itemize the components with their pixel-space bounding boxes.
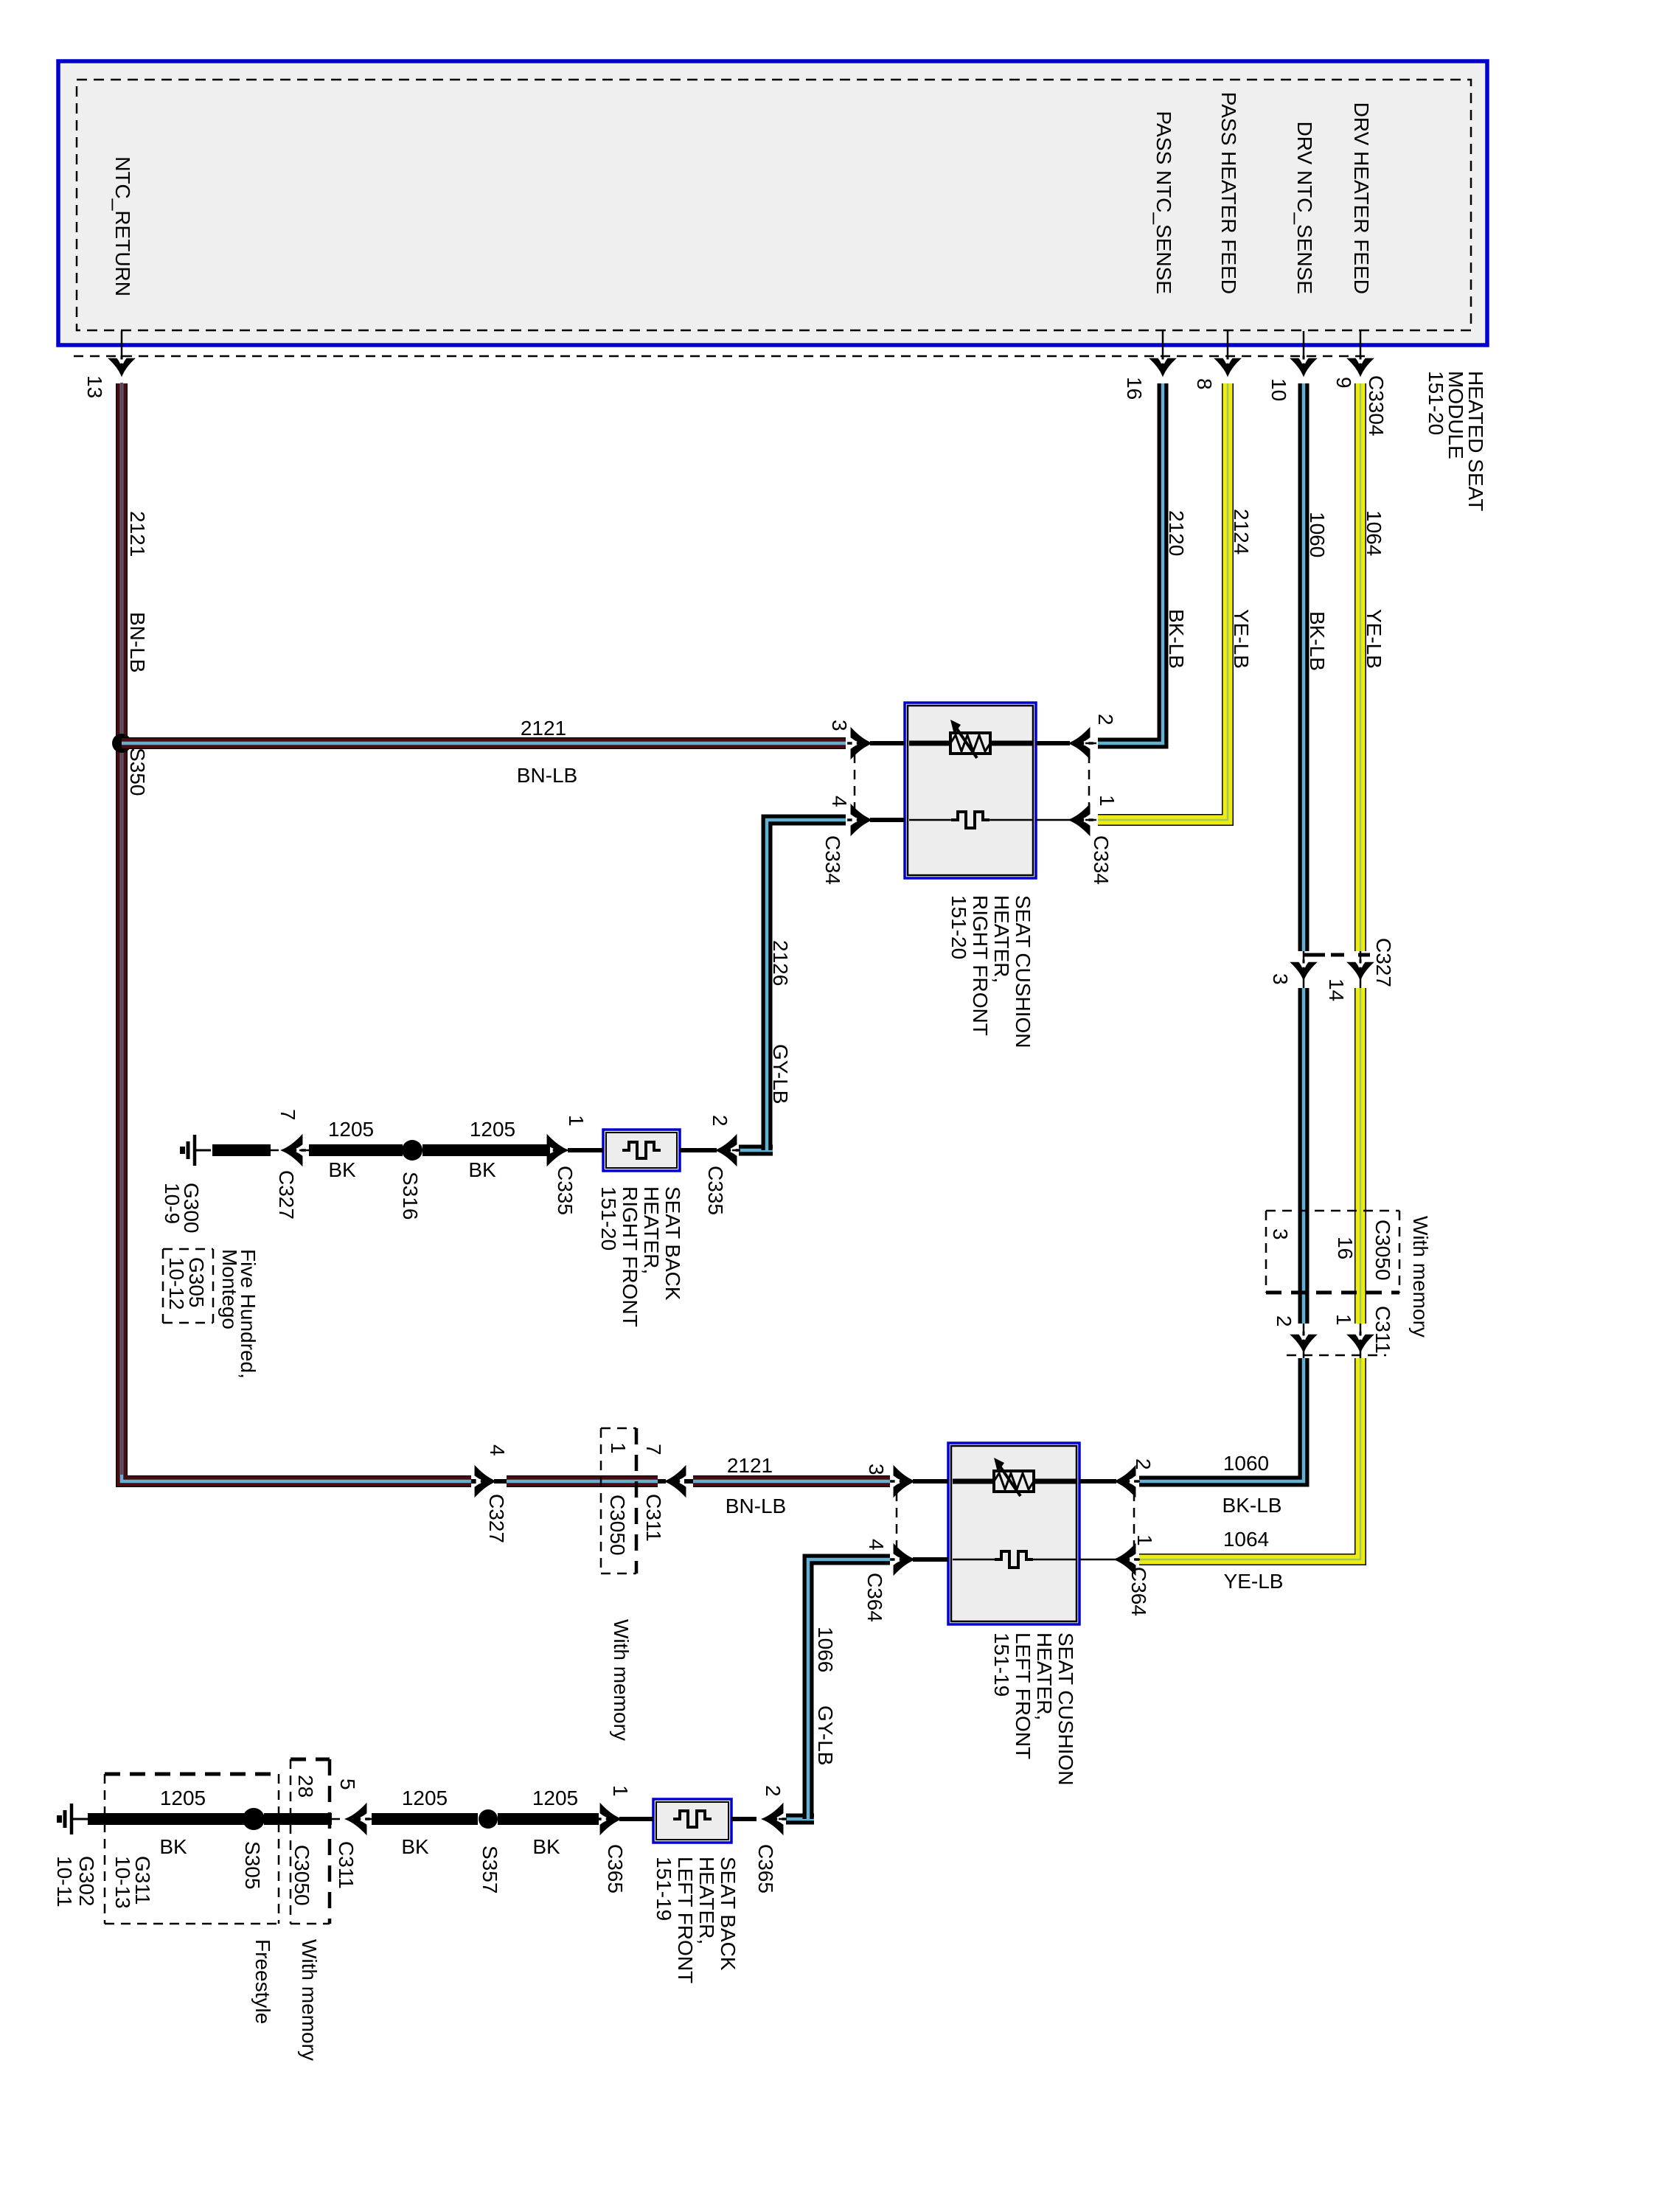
ground G300: [183, 1135, 212, 1166]
svg-text:BN-LB: BN-LB: [726, 1495, 786, 1517]
svg-text:1205: 1205: [532, 1787, 578, 1809]
arrow C311 pin 5: [346, 1804, 369, 1834]
module pin 16 arrow: [1150, 355, 1175, 376]
dashed C334 left: [854, 754, 856, 811]
dashed C364 right: [1133, 1492, 1135, 1551]
G311 box bold top edge: [105, 1773, 279, 1776]
wire 2126 GY-LB pin4 right to seat back heater right: [767, 820, 846, 1144]
svg-text:C364: C364: [1127, 1567, 1150, 1616]
svg-text:2124: 2124: [1230, 509, 1253, 554]
svg-text:10-11: 10-11: [53, 1856, 76, 1907]
module pin 10 stub: [1303, 331, 1305, 361]
svg-text:C3050: C3050: [606, 1495, 629, 1556]
arrow pin 1 right box: [1069, 805, 1093, 835]
svg-text:151-20: 151-20: [597, 1186, 620, 1251]
svg-text:BN-LB: BN-LB: [517, 764, 577, 787]
svg-text:8: 8: [1193, 378, 1216, 390]
dashed C364 left: [896, 1492, 898, 1551]
arrow pin 2 seat back left: [762, 1804, 786, 1834]
svg-text:C335: C335: [554, 1166, 577, 1215]
C3050 bold dashed line: [1266, 1291, 1399, 1295]
wire 2121 BN-LB into pin 3 left: [693, 1475, 890, 1487]
wire 2120 BK-LB from pin 16: [1098, 383, 1163, 743]
wire 1064 YE-LB middle segment: [1354, 988, 1366, 1324]
svg-text:3: 3: [1269, 1228, 1292, 1240]
arrow C311 on 1064: [1348, 1332, 1373, 1352]
dashed box C3050 (with memory) on 2121 run: [601, 1427, 636, 1430]
heated seat module box: [58, 61, 1487, 345]
svg-text:BK: BK: [401, 1835, 429, 1858]
thermistor symbol left box: [995, 1551, 1033, 1568]
svg-text:1: 1: [1096, 795, 1119, 807]
svg-text:BK-LB: BK-LB: [1222, 1494, 1282, 1517]
C311 thin dashed line: [1287, 1354, 1386, 1357]
wire 1205 BK between C327 and S316: [309, 1144, 403, 1156]
dashed box C3050 with memory (1060/1064 wires): [1266, 1210, 1399, 1212]
svg-text:28: 28: [294, 1775, 317, 1798]
C311 arrows on 1060/1064 wires: [1303, 1324, 1305, 1332]
arrow pin 2 seat back right: [716, 1135, 740, 1165]
wire 1205 BK S305 to C311: [264, 1813, 332, 1825]
svg-text:C365: C365: [754, 1844, 777, 1893]
svg-text:2121: 2121: [727, 1454, 773, 1477]
svg-text:1064: 1064: [1363, 510, 1385, 556]
svg-text:14: 14: [1325, 978, 1348, 1001]
svg-text:1: 1: [565, 1115, 588, 1127]
svg-text:1060: 1060: [1306, 512, 1329, 557]
svg-text:LEFT FRONT: LEFT FRONT: [674, 1857, 697, 1983]
wire 2121 BN-LB branch to pin 3 right: [122, 737, 846, 749]
arrow pin 1 seat back right: [543, 1135, 567, 1165]
svg-text:HEATER,: HEATER,: [1033, 1632, 1056, 1720]
variable resistor symbol right box: [950, 720, 990, 758]
svg-text:3: 3: [865, 1464, 888, 1475]
svg-text:Montego: Montego: [218, 1249, 241, 1329]
wire 2121 BN-LB between C327 and C311: [507, 1475, 658, 1487]
arrow pin 1 seat back left: [597, 1804, 620, 1834]
svg-text:151-19: 151-19: [653, 1857, 675, 1921]
svg-text:9: 9: [1332, 377, 1355, 389]
svg-text:1: 1: [1133, 1534, 1156, 1546]
module inner dashed outline: [77, 80, 1471, 330]
variable resistor symbol left box: [994, 1458, 1034, 1496]
module pin 8 arrow: [1215, 355, 1240, 376]
wire 1205 BK C311 to S357: [372, 1813, 478, 1825]
svg-text:16: 16: [1334, 1237, 1357, 1259]
svg-text:GY-LB: GY-LB: [814, 1705, 837, 1765]
svg-text:1205: 1205: [402, 1787, 448, 1809]
arrow at C327 pin 4: [471, 1467, 495, 1496]
in-line connector C327 pin 7 (ground chain): [271, 1150, 279, 1152]
svg-text:1205: 1205: [328, 1118, 374, 1141]
svg-text:SEAT BACK: SEAT BACK: [661, 1186, 684, 1301]
wire 1060 BK-LB middle segment: [1298, 988, 1310, 1324]
module pin 13 arrow: [109, 355, 134, 376]
svg-text:5: 5: [336, 1778, 359, 1790]
svg-text:C365: C365: [604, 1844, 627, 1893]
svg-text:YE-LB: YE-LB: [1224, 1570, 1284, 1593]
splice S357: [479, 1809, 498, 1829]
lead pin 1 seat back right: [568, 1148, 603, 1152]
lead pin 2 right box: [1036, 741, 1070, 745]
C3050 box bold top edge: [291, 1758, 330, 1761]
arrow pin 1 left box: [1115, 1545, 1138, 1574]
svg-text:2121: 2121: [126, 511, 149, 557]
svg-text:3: 3: [1269, 973, 1292, 985]
lead pin 3 left box: [913, 1479, 948, 1484]
wire 1064 YE-LB from pin 9 (upper): [1354, 383, 1366, 951]
svg-text:2120: 2120: [1165, 510, 1188, 556]
svg-text:10-12: 10-12: [165, 1257, 188, 1310]
wire 1066 GY-LB pin4 left to seat back heater left: [808, 1559, 890, 1813]
svg-text:DRV HEATER FEED: DRV HEATER FEED: [1350, 102, 1373, 294]
wire 1060 BK-LB from pin 10 (upper): [1298, 383, 1310, 951]
svg-text:BK-LB: BK-LB: [1165, 609, 1188, 669]
svg-text:2: 2: [1273, 1315, 1295, 1327]
svg-text:SEAT CUSHION: SEAT CUSHION: [1054, 1632, 1077, 1785]
arrow at C311 pin 7 on 2121 run: [658, 1479, 666, 1484]
svg-text:151-20: 151-20: [1425, 371, 1447, 435]
svg-text:C311: C311: [335, 1841, 358, 1889]
svg-text:LEFT FRONT: LEFT FRONT: [1012, 1632, 1034, 1759]
module pin 9 arrow: [1348, 355, 1373, 376]
svg-text:BK-LB: BK-LB: [1306, 611, 1329, 671]
lead pin 1 left box: [1079, 1559, 1116, 1561]
svg-text:1064: 1064: [1223, 1528, 1269, 1551]
svg-text:C3050: C3050: [1371, 1220, 1394, 1281]
wire 2124 YE-LB from pin 8: [1098, 383, 1228, 820]
wire 1205 BK ground stub G300: [212, 1144, 271, 1156]
svg-text:2: 2: [1132, 1458, 1155, 1470]
seat back heater left front box: [653, 1799, 731, 1843]
svg-text:C327: C327: [1372, 938, 1395, 987]
svg-text:C3304: C3304: [1365, 375, 1388, 437]
connector C3304 dashed line: [74, 355, 1370, 358]
svg-text:4: 4: [486, 1444, 509, 1456]
wire 1205 BK S357 to C365: [498, 1813, 599, 1825]
wire 1064 YE-LB into pin 1 left: [1139, 1358, 1360, 1559]
svg-text:HEATER,: HEATER,: [990, 895, 1013, 983]
lead pin 1 right box: [1036, 819, 1070, 821]
dashed box G305 (Five Hundred, Montego): [163, 1248, 213, 1251]
svg-text:1060: 1060: [1223, 1452, 1269, 1475]
svg-text:SEAT BACK: SEAT BACK: [717, 1857, 740, 1971]
svg-text:PASS NTC_SENSE: PASS NTC_SENSE: [1152, 111, 1175, 294]
svg-text:4: 4: [865, 1539, 888, 1551]
svg-text:16: 16: [1123, 377, 1146, 400]
ground G302: [60, 1804, 88, 1834]
svg-text:C327: C327: [275, 1170, 298, 1220]
svg-text:1205: 1205: [160, 1787, 206, 1809]
internal line pin1 row left box: [953, 1559, 996, 1561]
arrow C327 pin 7: [282, 1135, 305, 1165]
svg-text:C334: C334: [821, 835, 844, 885]
svg-text:With memory: With memory: [298, 1939, 321, 2061]
thermistor symbol seat back right: [622, 1142, 661, 1158]
svg-text:BK: BK: [159, 1835, 187, 1858]
internal line pin3 row right box: [909, 741, 951, 746]
svg-text:Freestyle: Freestyle: [251, 1939, 274, 2024]
svg-text:With memory: With memory: [610, 1619, 633, 1741]
arrow C327 pin 3: [1291, 959, 1316, 980]
svg-text:S305: S305: [241, 1841, 264, 1889]
lead pin 4 right box: [870, 818, 905, 822]
arrow pin 3 left box: [890, 1467, 914, 1496]
dashed C334 right: [1088, 754, 1091, 811]
svg-text:BK: BK: [328, 1158, 356, 1181]
lead pin 2 left box: [1079, 1479, 1116, 1484]
svg-text:4: 4: [828, 796, 851, 807]
svg-text:PASS HEATER FEED: PASS HEATER FEED: [1217, 92, 1240, 294]
C327 bold dashed line: [1304, 953, 1325, 957]
module pin 9 stub: [1360, 331, 1362, 361]
svg-text:NTC_RETURN: NTC_RETURN: [111, 156, 134, 296]
thermistor symbol right box: [951, 812, 990, 828]
svg-text:1: 1: [1332, 1314, 1355, 1326]
wire 1205 BK G302 to S305: [88, 1813, 249, 1825]
arrow pin 3 right box: [847, 728, 871, 758]
svg-text:1: 1: [609, 1785, 632, 1797]
svg-text:2: 2: [762, 1785, 785, 1797]
wire 2121 BN-LB from pin 13 (vertical + bottom run): [122, 383, 471, 1481]
svg-text:BN-LB: BN-LB: [126, 612, 149, 672]
in-line connector C327 pin 4 on 2121 run: [471, 1479, 477, 1484]
lead pin 1 seat back left: [619, 1817, 653, 1821]
svg-text:151-19: 151-19: [990, 1632, 1013, 1697]
seat back heater right front box: [603, 1130, 680, 1171]
lead pin 2 seat back right: [680, 1148, 717, 1152]
svg-text:2126: 2126: [769, 940, 792, 986]
svg-text:1205: 1205: [470, 1118, 515, 1141]
svg-text:C311: C311: [1371, 1306, 1394, 1354]
svg-text:1066: 1066: [814, 1627, 837, 1672]
arrow C327 pin 14: [1348, 959, 1373, 980]
thermistor symbol seat back left: [673, 1811, 712, 1827]
svg-text:BK: BK: [468, 1158, 496, 1181]
svg-text:BK: BK: [532, 1835, 560, 1858]
arrow pin 2 right box: [1069, 728, 1093, 758]
svg-text:C334: C334: [1090, 835, 1113, 885]
splice S316: [402, 1140, 422, 1161]
svg-text:C3050: C3050: [291, 1845, 313, 1906]
svg-text:2: 2: [1094, 714, 1117, 726]
wire 1205 BK between S316 and C335: [422, 1144, 550, 1156]
svg-text:C327: C327: [485, 1494, 508, 1543]
svg-text:SEAT CUSHION: SEAT CUSHION: [1012, 895, 1034, 1048]
svg-text:13: 13: [83, 375, 106, 398]
module pin 10 arrow: [1291, 355, 1316, 376]
arrow pin 4 left box: [890, 1545, 914, 1574]
arrow pin 4 right box: [847, 805, 871, 835]
svg-text:YE-LB: YE-LB: [1230, 609, 1253, 669]
svg-text:RIGHT FRONT: RIGHT FRONT: [619, 1186, 641, 1327]
svg-text:HEATER,: HEATER,: [695, 1857, 718, 1944]
svg-text:S357: S357: [479, 1846, 501, 1893]
connector C311 dashed line (bold): [635, 1428, 639, 1573]
svg-text:C335: C335: [704, 1166, 727, 1215]
internal line pin1 row right box: [909, 819, 953, 821]
svg-text:YE-LB: YE-LB: [1363, 609, 1385, 669]
arrow pin 2 left box: [1115, 1467, 1138, 1496]
module pin 16 stub: [1162, 331, 1164, 361]
internal line pin3 row left box: [953, 1479, 995, 1484]
seat cushion heater right front box: [905, 703, 1036, 878]
svg-text:10-13: 10-13: [111, 1856, 134, 1909]
arrow C311 on 1060: [1291, 1332, 1316, 1352]
seat cushion heater left front box: [948, 1443, 1079, 1624]
module pin 13 stub: [121, 331, 123, 361]
in-line connector C311 pin 5 (ground chain): [332, 1818, 340, 1820]
svg-text:S350: S350: [126, 748, 149, 796]
svg-text:C311: C311: [642, 1494, 665, 1542]
svg-text:HEATER,: HEATER,: [640, 1186, 663, 1274]
svg-text:3: 3: [828, 720, 851, 731]
svg-text:C364: C364: [863, 1573, 886, 1622]
svg-text:151-20: 151-20: [947, 895, 970, 959]
svg-text:2121: 2121: [521, 717, 566, 740]
svg-text:1: 1: [607, 1442, 630, 1454]
svg-text:7: 7: [276, 1109, 299, 1121]
svg-text:GY-LB: GY-LB: [769, 1044, 792, 1104]
splice S305: [243, 1808, 265, 1830]
lead pin 4 left box: [913, 1557, 948, 1562]
svg-text:10-9: 10-9: [161, 1183, 184, 1224]
svg-text:10: 10: [1267, 378, 1290, 401]
module pin 8 stub: [1227, 331, 1229, 361]
svg-text:S316: S316: [399, 1172, 422, 1220]
lead pin 2 seat back left: [731, 1817, 757, 1821]
lead pin 3 right box: [870, 741, 905, 745]
svg-text:DRV NTC_SENSE: DRV NTC_SENSE: [1293, 122, 1316, 294]
svg-text:With memory: With memory: [1409, 1216, 1432, 1338]
splice S350: [112, 734, 131, 753]
svg-text:G302: G302: [75, 1856, 98, 1907]
svg-text:2: 2: [709, 1115, 731, 1127]
svg-text:7: 7: [642, 1444, 665, 1455]
svg-text:RIGHT FRONT: RIGHT FRONT: [969, 895, 992, 1036]
wire 1060 BK-LB into pin 2 left: [1139, 1358, 1304, 1481]
